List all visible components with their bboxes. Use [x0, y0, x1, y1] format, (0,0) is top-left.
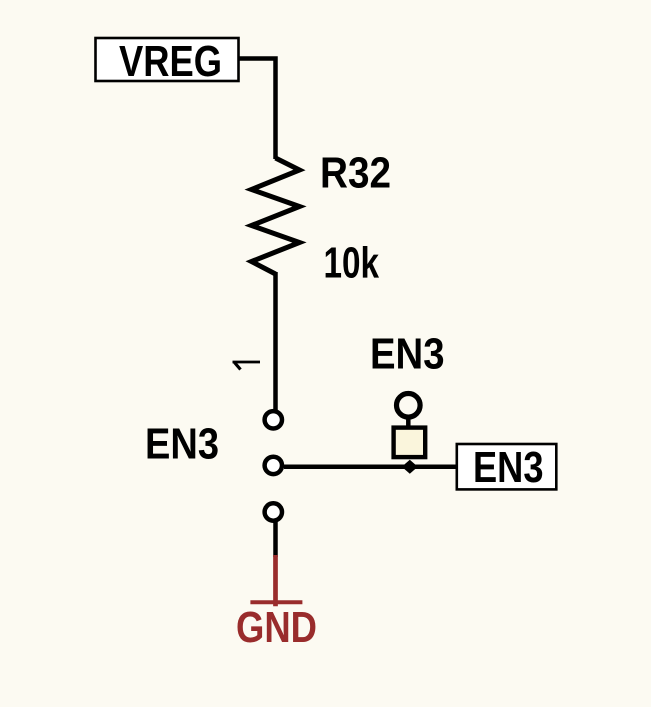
- svg-text:R32: R32: [320, 150, 391, 198]
- svg-text:GND: GND: [236, 604, 317, 652]
- svg-text:10k: 10k: [324, 240, 380, 288]
- svg-text:VREG: VREG: [119, 38, 222, 86]
- svg-text:EN3: EN3: [370, 331, 445, 379]
- svg-text:EN3: EN3: [473, 444, 544, 492]
- svg-text:EN3: EN3: [145, 421, 219, 469]
